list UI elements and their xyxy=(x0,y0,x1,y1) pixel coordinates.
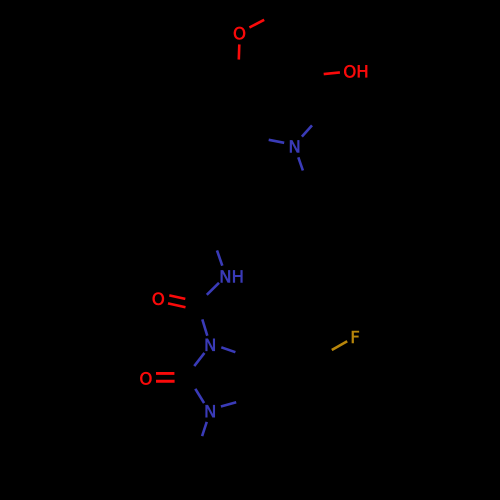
node O1 ring oxygen label xyxy=(234,27,245,39)
node F fluorine label xyxy=(352,331,359,343)
wire: amide C=O double bond lower line (red) xyxy=(168,303,186,307)
wire: N3 right half-bond to C3a (blue) xyxy=(221,402,236,406)
wire: N3 down half-bond to isopropyl CH (blue) xyxy=(202,422,207,436)
wire: O1 ring-O upper-right half-bond (red) xyxy=(249,20,264,28)
wire: N2 upper-right half-bond (blue) xyxy=(302,125,312,136)
wire: N1 right half-bond to C7a (blue) xyxy=(221,347,235,352)
node OH hydroxyl label xyxy=(344,65,367,77)
wire: O1 ring-O down half-bond (red) xyxy=(238,44,241,59)
wire: amide carbonyl carbon bond halves xyxy=(185,295,207,320)
wire: C2=O double bond upper line (red) xyxy=(156,372,174,375)
invisible carbon skeleton (near-black on black) xyxy=(168,15,323,491)
wire: amide NH up half-bond (blue) xyxy=(217,250,222,265)
node NH amide nitrogen label xyxy=(221,270,243,282)
wire: imidazolone C2 carbon bond halves xyxy=(174,366,195,389)
wire: N1 down-left half-bond to C2 (blue) xyxy=(194,353,204,366)
node N2 azacycle nitrogen label xyxy=(290,140,299,152)
wire: benzene ring bonds xyxy=(248,334,323,420)
wire: pyran ring A carbon bonds xyxy=(240,15,317,99)
wire: isopropyl bonds xyxy=(168,447,218,490)
wire: amide C=O double bond upper line (red) xyxy=(169,295,185,299)
wire: propyl chain carbon bonds xyxy=(210,182,310,237)
wire: C-OH half-bond (red) xyxy=(324,72,340,74)
wire: N2 left half-bond (blue) xyxy=(269,140,285,143)
wire: C2=O double bond lower line (red) xyxy=(156,380,175,383)
wire: amide NH down-left half-bond (blue) xyxy=(207,283,219,295)
visible colored half-bond segments xyxy=(156,20,347,436)
wire: N3 up-left half-bond to C2 (blue) xyxy=(195,389,204,403)
node N1 benzimidazolone nitrogen label xyxy=(206,339,215,351)
wire: C-F half-bond (gold) xyxy=(332,341,347,350)
node O amide carbonyl oxygen label xyxy=(153,293,164,305)
wire: N2 down half-bond (blue) xyxy=(298,157,303,170)
wire: azacycle ring B carbon bonds xyxy=(253,76,323,135)
node O C2 carbonyl oxygen label xyxy=(140,372,151,384)
node N3 benzimidazolone nitrogen label xyxy=(206,405,215,417)
wire: N1 up half-bond to amide C (blue) xyxy=(202,319,207,335)
wire: benzene inner aromatic lines xyxy=(256,341,316,413)
